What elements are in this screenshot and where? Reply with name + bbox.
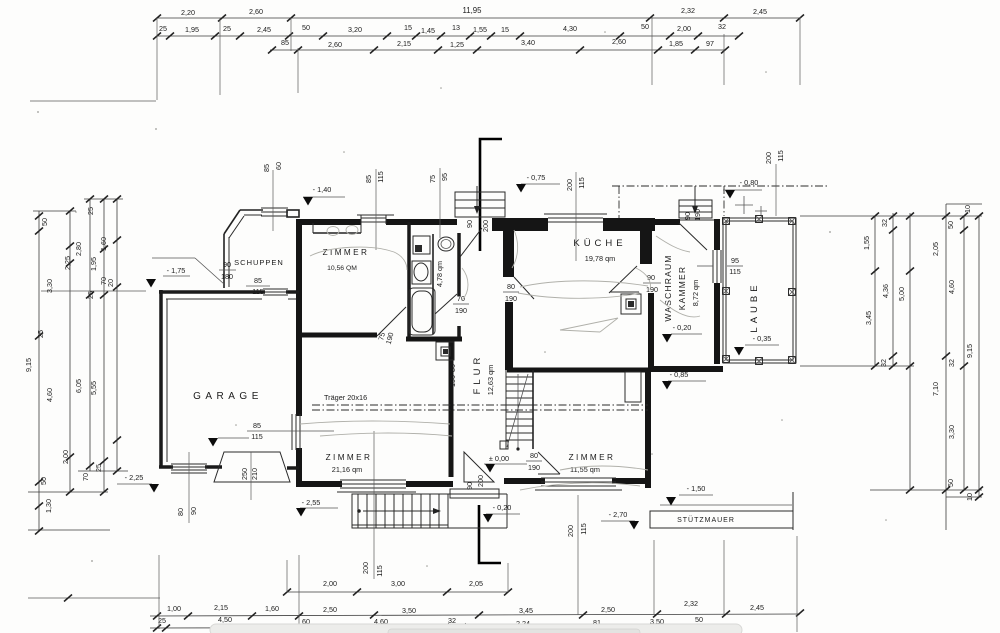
svg-text:1,00: 1,00 xyxy=(167,604,181,613)
level -2,70 xyxy=(601,510,639,530)
svg-text:4,36: 4,36 xyxy=(881,284,890,298)
svg-text:Träger 20x16: Träger 20x16 xyxy=(324,393,367,402)
svg-text:± 0,00: ± 0,00 xyxy=(489,454,509,463)
svg-text:5,00: 5,00 xyxy=(897,287,906,301)
svg-text:70: 70 xyxy=(81,473,90,481)
label 85/115 schuppen window xyxy=(246,276,270,296)
svg-text:2,32: 2,32 xyxy=(684,599,698,608)
svg-text:95: 95 xyxy=(731,256,739,265)
window schuppen north xyxy=(261,208,288,216)
svg-text:85: 85 xyxy=(262,164,271,172)
level -0,20 bottom xyxy=(483,503,520,523)
level +-0,00 xyxy=(484,454,527,473)
svg-text:1,25: 1,25 xyxy=(450,40,464,49)
svg-text:9,15: 9,15 xyxy=(965,344,974,358)
section cut line top xyxy=(480,139,502,251)
svg-text:13: 13 xyxy=(452,23,460,32)
bath south wall xyxy=(406,337,462,342)
sill box NW corner xyxy=(0,0,1,1)
svg-text:75: 75 xyxy=(428,175,437,183)
bath door leaf 70/190 xyxy=(435,294,469,315)
svg-text:80: 80 xyxy=(176,508,185,516)
svg-text:8,72 qm: 8,72 qm xyxy=(691,280,700,306)
svg-text:10: 10 xyxy=(963,205,972,213)
bathtub xyxy=(409,288,435,335)
waschraum exterior door leaf xyxy=(679,223,707,250)
svg-text:115: 115 xyxy=(251,432,262,441)
svg-text:2,60: 2,60 xyxy=(328,40,342,49)
window top wall KUECHE xyxy=(544,214,607,222)
svg-text:- 1,75: - 1,75 xyxy=(167,266,186,275)
svg-text:90: 90 xyxy=(223,260,231,269)
svg-text:- 0,20: - 0,20 xyxy=(673,323,692,332)
door right zimmer leaf 80/190 xyxy=(526,451,560,474)
svg-text:1,95: 1,95 xyxy=(89,257,98,271)
svg-text:2,15: 2,15 xyxy=(214,603,228,612)
svg-text:2,00: 2,00 xyxy=(323,579,337,588)
level -1,40 xyxy=(303,185,345,206)
svg-text:2,25: 2,25 xyxy=(63,256,72,270)
svg-text:- 0,20: - 0,20 xyxy=(493,503,512,512)
svg-text:2,60: 2,60 xyxy=(612,37,626,46)
svg-text:- 2,25: - 2,25 xyxy=(125,473,144,482)
bath label 4,78 qm xyxy=(435,261,444,287)
svg-text:32: 32 xyxy=(880,219,889,227)
svg-text:90: 90 xyxy=(683,212,692,220)
svg-text:2,05: 2,05 xyxy=(469,579,483,588)
wash basin xyxy=(412,261,431,284)
bath west wall xyxy=(407,222,411,338)
wall zimmer10 bottom xyxy=(299,333,377,338)
svg-text:97: 97 xyxy=(706,39,714,48)
svg-text:115: 115 xyxy=(375,565,384,576)
svg-text:4,50: 4,50 xyxy=(218,615,232,624)
paper speckles xyxy=(37,31,887,567)
svg-text:85: 85 xyxy=(254,276,262,285)
svg-text:3,50: 3,50 xyxy=(402,606,416,615)
svg-text:2,15: 2,15 xyxy=(397,39,411,48)
svg-text:190: 190 xyxy=(528,463,540,472)
level -1,50 xyxy=(666,484,713,506)
svg-text:50: 50 xyxy=(946,221,955,229)
svg-text:2,45: 2,45 xyxy=(257,25,271,34)
svg-text:2,80: 2,80 xyxy=(74,242,83,256)
south wall zimmer21 xyxy=(299,481,453,487)
svg-text:2,32: 2,32 xyxy=(681,6,695,15)
svg-text:200: 200 xyxy=(481,220,490,232)
top extension lines xyxy=(157,17,800,100)
svg-text:5,55: 5,55 xyxy=(89,381,98,395)
svg-text:50: 50 xyxy=(946,479,955,487)
bottom extension lines xyxy=(159,495,797,632)
svg-text:200: 200 xyxy=(361,562,370,574)
left dimension chains xyxy=(24,196,146,535)
garage north wall xyxy=(159,292,299,299)
east wall zimmer right xyxy=(645,372,651,488)
zimmer right west wall / stair stringer xyxy=(532,372,534,449)
svg-text:85: 85 xyxy=(253,421,261,430)
south wall zimmer right xyxy=(504,478,650,484)
chimney niche right zimmer xyxy=(625,372,641,402)
svg-text:85: 85 xyxy=(364,175,373,183)
svg-text:- 0,85: - 0,85 xyxy=(670,370,689,379)
section cut line bottom xyxy=(479,505,501,563)
exterior stair bottom xyxy=(352,494,507,528)
chimney flur xyxy=(436,342,454,360)
svg-text:60: 60 xyxy=(274,162,283,170)
svg-text:80: 80 xyxy=(448,364,457,372)
outer top wall segments xyxy=(299,218,714,231)
svg-text:95: 95 xyxy=(440,173,449,181)
svg-text:1,55: 1,55 xyxy=(473,25,487,34)
traeger dashed beam xyxy=(312,393,648,410)
svg-text:19,78 qm: 19,78 qm xyxy=(585,254,615,263)
entrance steps top xyxy=(455,186,505,217)
svg-text:25: 25 xyxy=(86,207,95,215)
svg-text:15: 15 xyxy=(501,25,509,34)
door zimmer10 leaf xyxy=(376,307,406,345)
toilet bowl xyxy=(438,237,454,251)
svg-text:- 1,50: - 1,50 xyxy=(687,484,706,493)
level -2,55 xyxy=(296,498,338,517)
svg-text:- 2,55: - 2,55 xyxy=(302,498,321,507)
window garage north xyxy=(263,289,288,295)
svg-text:190: 190 xyxy=(693,209,702,221)
svg-text:ZIMMER: ZIMMER xyxy=(569,453,616,462)
window top wall ZIMMER xyxy=(313,215,394,233)
kueche west pier xyxy=(503,231,514,277)
WC cistern square xyxy=(413,236,430,254)
svg-text:KÜCHE: KÜCHE xyxy=(573,238,626,249)
level -0,35 laube xyxy=(734,334,779,356)
kueche west wall lower xyxy=(505,302,513,370)
garage ramp trapezoid xyxy=(214,452,290,500)
top dimension chain row 2 xyxy=(153,22,743,40)
svg-text:3,45: 3,45 xyxy=(864,311,873,325)
svg-text:1,85: 1,85 xyxy=(669,39,683,48)
svg-text:LAUBE: LAUBE xyxy=(749,281,760,332)
roof dashed outline xyxy=(612,186,828,218)
bottom dimension chain row B xyxy=(150,599,804,620)
svg-text:2,50: 2,50 xyxy=(323,605,337,614)
svg-text:3,00: 3,00 xyxy=(391,579,405,588)
svg-text:32: 32 xyxy=(879,359,888,367)
svg-text:GARAGE: GARAGE xyxy=(193,391,263,402)
svg-text:- 2,70: - 2,70 xyxy=(609,510,628,519)
waschraum east wall xyxy=(714,219,720,364)
svg-text:- 0,80: - 0,80 xyxy=(740,178,759,187)
exit landing slab xyxy=(450,489,499,498)
svg-text:21,16 qm: 21,16 qm xyxy=(332,465,362,474)
label line 200/115 bottom center xyxy=(361,431,384,579)
svg-text:190: 190 xyxy=(448,375,457,387)
svg-text:7,10: 7,10 xyxy=(931,382,940,396)
svg-text:2,05: 2,05 xyxy=(931,242,940,256)
laube posts xyxy=(723,216,796,365)
svg-text:3,40: 3,40 xyxy=(521,38,535,47)
svg-text:190: 190 xyxy=(455,306,467,315)
svg-text:115: 115 xyxy=(252,287,263,296)
chimney kueche xyxy=(621,294,641,314)
svg-text:3,45: 3,45 xyxy=(519,606,533,615)
svg-text:80: 80 xyxy=(530,451,538,460)
svg-text:3,30: 3,30 xyxy=(45,279,54,293)
garage south wall xyxy=(159,467,299,468)
svg-text:25: 25 xyxy=(94,464,103,472)
svg-text:200: 200 xyxy=(565,179,574,191)
svg-text:- 1,40: - 1,40 xyxy=(313,185,332,194)
svg-text:20: 20 xyxy=(106,279,115,287)
svg-text:STÜTZMAUER: STÜTZMAUER xyxy=(677,516,735,524)
svg-text:1,60: 1,60 xyxy=(99,237,108,251)
svg-text:50: 50 xyxy=(302,23,310,32)
stair flur xyxy=(500,370,533,451)
window waschraum east xyxy=(697,250,743,283)
svg-text:200: 200 xyxy=(566,525,575,537)
svg-text:80: 80 xyxy=(507,282,515,291)
vertical label lines above plan xyxy=(262,162,283,231)
svg-text:250: 250 xyxy=(240,468,249,480)
svg-text:- 0,75: - 0,75 xyxy=(527,173,546,182)
entrance door leaf xyxy=(460,228,482,257)
svg-text:200: 200 xyxy=(476,475,485,487)
svg-text:90: 90 xyxy=(465,220,474,228)
svg-text:1,30: 1,30 xyxy=(44,499,53,513)
svg-text:4,60: 4,60 xyxy=(45,388,54,402)
svg-text:2,60: 2,60 xyxy=(249,7,263,16)
svg-text:WASCHRAUM: WASCHRAUM xyxy=(663,254,673,321)
top left reference line xyxy=(30,100,156,102)
svg-text:2,20: 2,20 xyxy=(181,8,195,17)
level -0,85 xyxy=(662,370,706,390)
svg-text:ZIMMER: ZIMMER xyxy=(326,453,373,462)
svg-text:3,20: 3,20 xyxy=(348,25,362,34)
svg-text:11,95: 11,95 xyxy=(463,6,483,15)
svg-text:2,45: 2,45 xyxy=(753,7,767,16)
stuetzmauer retaining wall xyxy=(650,492,793,530)
ramp labels 250/210 xyxy=(240,468,259,480)
window west wall xyxy=(292,414,300,450)
svg-text:50: 50 xyxy=(40,218,49,226)
svg-text:200: 200 xyxy=(764,152,773,164)
label 90/180 schuppen xyxy=(152,258,236,284)
kueche east pier xyxy=(640,231,652,264)
bath divider wall xyxy=(432,234,434,334)
svg-text:90: 90 xyxy=(189,507,198,515)
svg-text:SCHUPPEN: SCHUPPEN xyxy=(234,258,284,267)
waschraum south wall xyxy=(648,366,723,372)
svg-text:115: 115 xyxy=(376,171,385,182)
level -2,25 xyxy=(117,473,159,493)
flur west wall (zimmer21 east) xyxy=(449,341,454,477)
top dimension chain row 1 xyxy=(153,6,804,22)
svg-text:4,78 qm: 4,78 qm xyxy=(435,261,444,287)
east wall mid (kueche/waschraum) xyxy=(648,293,654,372)
waschraum steps outside xyxy=(679,186,712,221)
svg-text:50: 50 xyxy=(39,477,48,485)
svg-text:2,00: 2,00 xyxy=(677,24,691,33)
svg-text:10: 10 xyxy=(965,493,974,501)
svg-text:- 0,35: - 0,35 xyxy=(753,334,772,343)
bottom overlay bars xyxy=(210,624,742,633)
svg-text:4,30: 4,30 xyxy=(563,24,577,33)
svg-text:190: 190 xyxy=(505,294,517,303)
level -0,80 xyxy=(723,178,762,199)
svg-text:210: 210 xyxy=(250,468,259,480)
garage door sill xyxy=(171,464,207,473)
svg-text:1,45: 1,45 xyxy=(421,26,435,35)
right dimension chains xyxy=(800,204,983,530)
svg-text:3,30: 3,30 xyxy=(947,425,956,439)
svg-text:2,45: 2,45 xyxy=(750,603,764,612)
svg-text:25: 25 xyxy=(36,330,45,338)
bottom left reference line xyxy=(28,595,160,602)
kueche-waschraum door leaf xyxy=(609,266,661,294)
window zimmer right south xyxy=(535,478,622,490)
label 80/190 flur xyxy=(448,364,457,387)
marker triangle near zimmer21 window xyxy=(208,438,249,447)
bath east wall xyxy=(457,233,461,341)
svg-text:2,00: 2,00 xyxy=(61,450,70,464)
svg-text:10,56 QM: 10,56 QM xyxy=(327,265,357,272)
svg-text:25: 25 xyxy=(223,24,231,33)
bottom dimension chain row A xyxy=(283,579,512,596)
kueche door labels 80/190 xyxy=(503,277,534,303)
svg-text:115: 115 xyxy=(729,267,740,276)
top dimension chain row 3 xyxy=(268,37,729,54)
svg-text:1,60: 1,60 xyxy=(265,604,279,613)
svg-text:115: 115 xyxy=(776,150,785,161)
garage west wall xyxy=(161,290,167,468)
window zimmer21 south xyxy=(337,480,416,492)
svg-text:4,60: 4,60 xyxy=(947,280,956,294)
svg-text:180: 180 xyxy=(221,272,233,281)
label line 200/115 below right zimmer xyxy=(566,523,588,537)
svg-text:32: 32 xyxy=(947,359,956,367)
exit door triangle bottom xyxy=(464,452,494,490)
svg-text:25: 25 xyxy=(86,291,95,299)
svg-text:9,15: 9,15 xyxy=(24,358,33,372)
level -0,75 xyxy=(516,173,560,193)
entrance labels 90/200 xyxy=(465,220,490,232)
svg-text:6,05: 6,05 xyxy=(74,379,83,393)
schuppen walls xyxy=(224,210,299,288)
svg-text:1,95: 1,95 xyxy=(185,25,199,34)
level -1,75 xyxy=(146,266,190,288)
svg-text:1,55: 1,55 xyxy=(862,236,871,250)
svg-text:115: 115 xyxy=(579,523,588,534)
level -0,20 waschraum xyxy=(662,323,702,343)
label line 85/115 zimmer21 window xyxy=(247,421,334,441)
svg-text:FLUR: FLUR xyxy=(472,354,483,395)
laube walls xyxy=(723,218,796,363)
svg-text:50: 50 xyxy=(695,615,703,624)
svg-text:25: 25 xyxy=(159,24,167,33)
svg-text:12,63 qm: 12,63 qm xyxy=(486,365,495,395)
svg-text:KAMMER: KAMMER xyxy=(677,266,687,311)
svg-text:2,50: 2,50 xyxy=(601,605,615,614)
svg-text:115: 115 xyxy=(577,177,586,188)
bottom dimension chain row C (partially cut) xyxy=(150,615,720,632)
garage door labels 80/90 xyxy=(176,452,198,523)
south wall kueche / zimmer top xyxy=(507,368,648,373)
svg-text:15: 15 xyxy=(404,23,412,32)
pencil scribbles xyxy=(300,226,700,491)
svg-text:85: 85 xyxy=(281,38,289,47)
svg-text:32: 32 xyxy=(718,22,726,31)
svg-text:50: 50 xyxy=(641,22,649,31)
west outer wall xyxy=(296,219,302,487)
